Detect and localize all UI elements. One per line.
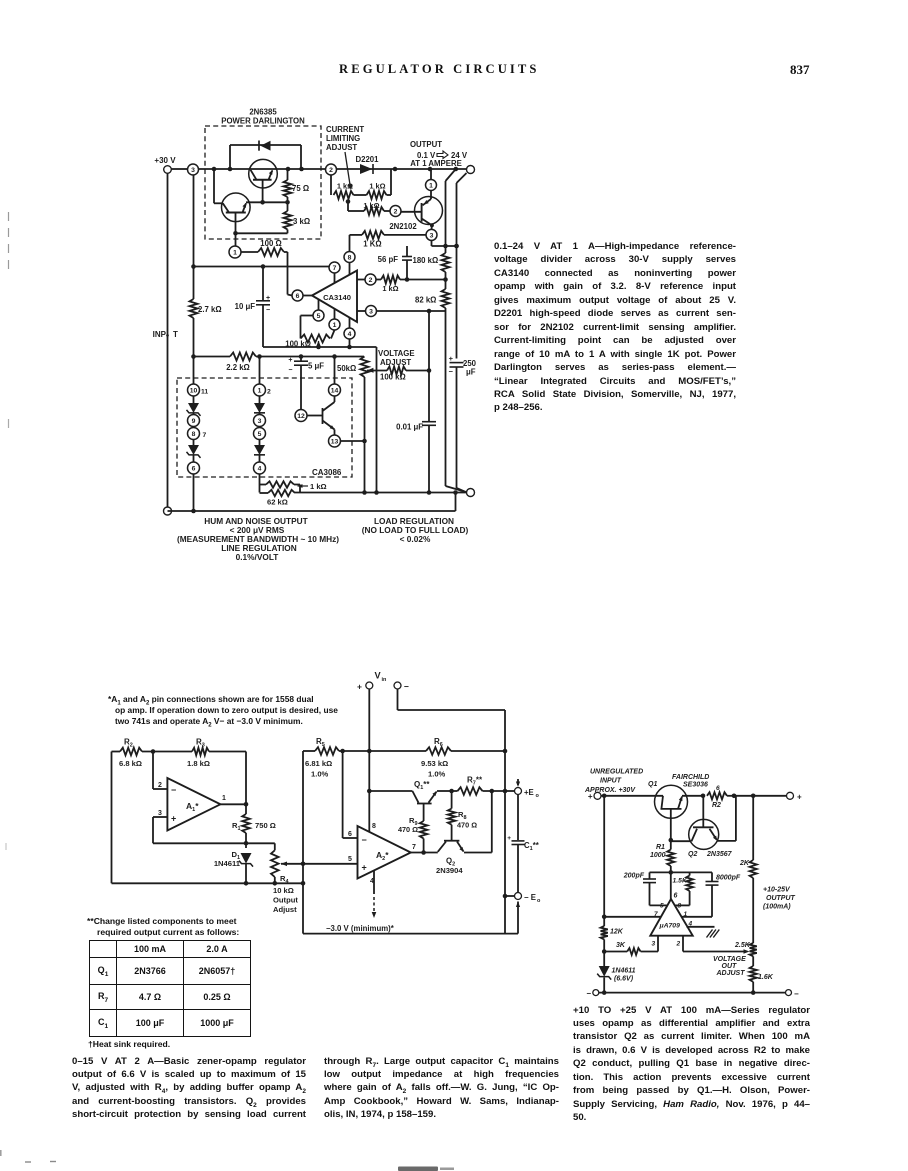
svg-text:50kΩ: 50kΩ bbox=[337, 364, 356, 373]
svg-text:6: 6 bbox=[716, 785, 720, 792]
svg-text:11: 11 bbox=[201, 389, 208, 396]
svg-text:470 Ω: 470 Ω bbox=[457, 821, 477, 830]
svg-text:+: + bbox=[449, 354, 454, 363]
svg-text:12K: 12K bbox=[610, 929, 624, 936]
svg-text:5: 5 bbox=[660, 903, 664, 910]
svg-text:OUTPUT: OUTPUT bbox=[410, 140, 442, 149]
svg-text:+30 V: +30 V bbox=[154, 156, 176, 165]
svg-text:ADJUST: ADJUST bbox=[716, 970, 746, 977]
svg-text:o: o bbox=[536, 793, 540, 799]
svg-text:2.5K: 2.5K bbox=[734, 942, 751, 949]
svg-text:Q1: Q1 bbox=[648, 781, 657, 788]
svg-text:1.8 kΩ: 1.8 kΩ bbox=[187, 759, 210, 768]
svg-text:−: − bbox=[586, 989, 591, 998]
svg-text:+: + bbox=[171, 814, 176, 824]
svg-text:3: 3 bbox=[369, 309, 373, 316]
svg-text:6: 6 bbox=[348, 831, 352, 838]
svg-text:1.5K: 1.5K bbox=[673, 878, 688, 885]
svg-text:8: 8 bbox=[348, 255, 352, 262]
svg-text:62 kΩ: 62 kΩ bbox=[267, 498, 288, 507]
svg-text:CA3086: CA3086 bbox=[312, 468, 342, 477]
svg-text:−: − bbox=[794, 989, 799, 998]
svg-text:180 kΩ: 180 kΩ bbox=[413, 256, 439, 265]
svg-text:SE3036: SE3036 bbox=[683, 782, 708, 789]
svg-text:VOLTAGE: VOLTAGE bbox=[713, 956, 746, 963]
svg-text:FAIRCHILD: FAIRCHILD bbox=[672, 774, 709, 781]
svg-text:μA709: μA709 bbox=[659, 923, 681, 930]
svg-text:−3.0 V (minimum)*: −3.0 V (minimum)* bbox=[326, 924, 395, 933]
svg-text:−: − bbox=[266, 307, 270, 314]
svg-text:2: 2 bbox=[394, 209, 398, 216]
svg-text:V: V bbox=[375, 671, 382, 681]
svg-text:1.0%: 1.0% bbox=[428, 770, 446, 779]
svg-text:− E: − E bbox=[524, 893, 536, 902]
svg-text:ADJUST: ADJUST bbox=[380, 358, 411, 367]
svg-text:10: 10 bbox=[190, 388, 198, 395]
svg-text:10 kΩ: 10 kΩ bbox=[273, 886, 294, 895]
svg-text:1N4611: 1N4611 bbox=[612, 968, 636, 975]
svg-text:R3: R3 bbox=[196, 738, 205, 749]
svg-text:100 kΩ: 100 kΩ bbox=[285, 340, 311, 349]
svg-text:INP: INP bbox=[153, 330, 167, 339]
svg-text:T: T bbox=[173, 330, 178, 339]
svg-text:100 Ω: 100 Ω bbox=[260, 239, 281, 248]
svg-text:2.7 kΩ: 2.7 kΩ bbox=[198, 305, 222, 314]
svg-text:1 kΩ: 1 kΩ bbox=[337, 182, 353, 191]
svg-text:+: + bbox=[362, 863, 367, 873]
svg-text:1 kΩ: 1 kΩ bbox=[369, 182, 385, 191]
svg-text:1 kΩ: 1 kΩ bbox=[363, 201, 379, 210]
svg-text:VOLTAGE: VOLTAGE bbox=[378, 349, 415, 358]
svg-text:< 0.02%: < 0.02% bbox=[400, 534, 431, 544]
svg-text:R1: R1 bbox=[656, 844, 665, 851]
svg-text:UNREGULATED: UNREGULATED bbox=[590, 769, 643, 776]
svg-text:1: 1 bbox=[684, 911, 688, 918]
svg-text:1 kΩ: 1 kΩ bbox=[310, 482, 327, 491]
svg-text:ADJUST: ADJUST bbox=[326, 143, 357, 152]
svg-text:1: 1 bbox=[222, 795, 226, 802]
svg-text:6: 6 bbox=[674, 893, 678, 900]
svg-text:in: in bbox=[382, 677, 388, 683]
svg-text:5: 5 bbox=[317, 313, 321, 320]
svg-text:5: 5 bbox=[258, 431, 262, 438]
svg-text:9: 9 bbox=[192, 418, 196, 425]
svg-text:2N2102: 2N2102 bbox=[389, 222, 417, 231]
svg-text:CURRENT: CURRENT bbox=[326, 125, 364, 134]
svg-text:1: 1 bbox=[233, 250, 237, 257]
svg-text:1.6K: 1.6K bbox=[758, 974, 774, 981]
svg-text:14: 14 bbox=[331, 388, 339, 395]
svg-text:APPROX. +30V: APPROX. +30V bbox=[584, 787, 636, 794]
svg-text:2: 2 bbox=[369, 277, 373, 284]
svg-text:−: − bbox=[288, 367, 292, 374]
svg-text:9.53 kΩ: 9.53 kΩ bbox=[421, 759, 448, 768]
svg-text:3K: 3K bbox=[616, 942, 626, 949]
svg-text:OUT: OUT bbox=[722, 963, 738, 970]
svg-text:POWER DARLINGTON: POWER DARLINGTON bbox=[221, 117, 305, 126]
svg-text:3: 3 bbox=[430, 233, 434, 240]
svg-text:R2: R2 bbox=[712, 802, 721, 809]
svg-text:+E: +E bbox=[524, 788, 534, 797]
svg-text:Q1**: Q1** bbox=[414, 780, 430, 791]
svg-text:4: 4 bbox=[348, 331, 352, 338]
svg-text:R7**: R7** bbox=[467, 776, 483, 787]
svg-text:6: 6 bbox=[296, 293, 300, 300]
svg-text:Adjust: Adjust bbox=[273, 905, 297, 914]
svg-text:200pF: 200pF bbox=[623, 873, 645, 880]
svg-text:3: 3 bbox=[191, 167, 195, 174]
svg-text:75 Ω: 75 Ω bbox=[292, 184, 309, 193]
svg-text:56 pF: 56 pF bbox=[378, 255, 399, 264]
svg-text:8: 8 bbox=[372, 823, 376, 830]
svg-text:−: − bbox=[404, 682, 409, 692]
svg-text:R5: R5 bbox=[316, 737, 325, 748]
svg-text:6: 6 bbox=[192, 466, 196, 473]
svg-text:12: 12 bbox=[297, 413, 305, 420]
svg-text:5 μF: 5 μF bbox=[308, 362, 324, 371]
svg-text:470 Ω: 470 Ω bbox=[398, 825, 418, 834]
svg-text:0.1%/VOLT: 0.1%/VOLT bbox=[236, 552, 279, 562]
svg-text:+: + bbox=[288, 357, 292, 364]
svg-text:2N6385: 2N6385 bbox=[249, 107, 277, 116]
svg-text:8: 8 bbox=[678, 903, 682, 910]
svg-text:7: 7 bbox=[654, 911, 658, 918]
svg-text:D2201: D2201 bbox=[356, 155, 380, 164]
svg-text:1: 1 bbox=[429, 183, 433, 190]
svg-text:100 kΩ: 100 kΩ bbox=[380, 373, 406, 382]
svg-text:1000: 1000 bbox=[650, 852, 666, 859]
svg-text:3: 3 bbox=[652, 941, 656, 948]
svg-text:Output: Output bbox=[273, 896, 298, 905]
svg-text:CA3140: CA3140 bbox=[323, 293, 351, 302]
svg-text:μF: μF bbox=[466, 368, 476, 377]
svg-text:1: 1 bbox=[333, 322, 337, 329]
svg-text:LIMITING: LIMITING bbox=[326, 134, 360, 143]
svg-text:2N3904: 2N3904 bbox=[436, 866, 463, 875]
svg-text:7: 7 bbox=[333, 265, 337, 272]
svg-text:OUTPUT: OUTPUT bbox=[766, 895, 796, 902]
svg-text:1N4611: 1N4611 bbox=[214, 859, 241, 868]
svg-text:(6.6V): (6.6V) bbox=[614, 976, 634, 983]
svg-text:2: 2 bbox=[676, 941, 681, 948]
svg-text:0.01 μF: 0.01 μF bbox=[396, 423, 423, 432]
svg-text:4: 4 bbox=[258, 466, 262, 473]
svg-text:10 μF: 10 μF bbox=[235, 302, 256, 311]
svg-text:+: + bbox=[507, 835, 511, 842]
svg-text:+: + bbox=[266, 295, 270, 302]
svg-text:−: − bbox=[449, 367, 454, 376]
svg-text:7: 7 bbox=[412, 844, 416, 851]
svg-text:82 kΩ: 82 kΩ bbox=[415, 296, 436, 305]
svg-text:5: 5 bbox=[348, 856, 352, 863]
svg-text:+: + bbox=[357, 682, 362, 692]
svg-text:−: − bbox=[362, 835, 367, 845]
svg-text:8: 8 bbox=[192, 431, 196, 438]
svg-text:1: 1 bbox=[258, 388, 262, 395]
svg-text:750 Ω: 750 Ω bbox=[255, 821, 276, 830]
svg-text:2K: 2K bbox=[739, 860, 750, 867]
svg-text:+: + bbox=[797, 793, 802, 802]
svg-text:3 kΩ: 3 kΩ bbox=[293, 217, 310, 226]
svg-text:R8: R8 bbox=[458, 810, 467, 821]
svg-text:7: 7 bbox=[203, 432, 207, 439]
svg-text:−: − bbox=[171, 785, 176, 795]
svg-text:o: o bbox=[537, 898, 541, 904]
svg-text:8000pF: 8000pF bbox=[716, 875, 741, 882]
svg-text:2N3567: 2N3567 bbox=[706, 851, 733, 858]
svg-text:+10-25V: +10-25V bbox=[763, 887, 791, 894]
svg-text:1 KΩ: 1 KΩ bbox=[363, 240, 381, 249]
svg-text:AT 1 AMPERE: AT 1 AMPERE bbox=[410, 159, 462, 168]
svg-text:C1**: C1** bbox=[524, 841, 540, 852]
svg-text:4: 4 bbox=[370, 878, 374, 885]
svg-text:3: 3 bbox=[158, 810, 162, 817]
svg-text:2: 2 bbox=[329, 167, 333, 174]
svg-text:13: 13 bbox=[331, 439, 339, 446]
svg-text:2.2 kΩ: 2.2 kΩ bbox=[226, 363, 250, 372]
svg-text:6.81 kΩ: 6.81 kΩ bbox=[305, 759, 332, 768]
svg-text:2: 2 bbox=[158, 782, 162, 789]
svg-text:2: 2 bbox=[267, 389, 271, 396]
svg-text:1.0%: 1.0% bbox=[311, 770, 329, 779]
svg-text:3: 3 bbox=[258, 418, 262, 425]
svg-text:R1: R1 bbox=[232, 821, 241, 832]
svg-text:INPUT: INPUT bbox=[600, 778, 622, 785]
svg-text:(100mA): (100mA) bbox=[763, 904, 791, 911]
svg-text:1 kΩ: 1 kΩ bbox=[382, 284, 398, 293]
svg-text:Q2: Q2 bbox=[688, 851, 697, 858]
svg-text:6.8 kΩ: 6.8 kΩ bbox=[119, 759, 142, 768]
